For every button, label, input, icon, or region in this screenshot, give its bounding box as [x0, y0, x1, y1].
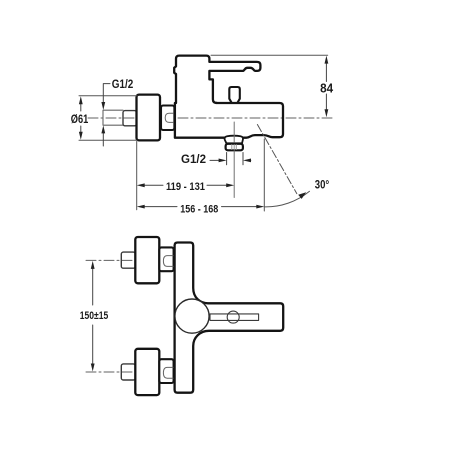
svg-text:84: 84	[320, 81, 334, 96]
svg-text:119 - 131: 119 - 131	[166, 181, 205, 193]
svg-text:30°: 30°	[315, 178, 330, 192]
svg-text:150±15: 150±15	[80, 310, 109, 322]
svg-text:Ø61: Ø61	[71, 112, 89, 126]
svg-text:G1/2: G1/2	[112, 77, 134, 91]
svg-text:G1/2: G1/2	[181, 152, 206, 166]
svg-text:156 - 168: 156 - 168	[180, 204, 218, 216]
